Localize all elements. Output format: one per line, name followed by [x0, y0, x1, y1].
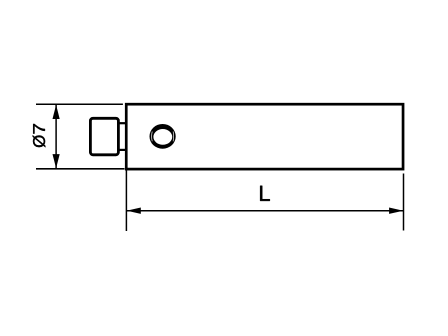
label D7 digit 7	[33, 124, 45, 134]
neck between stud and body	[118, 123, 126, 150]
hole ring	[150, 124, 176, 149]
arrowhead left	[127, 208, 141, 214]
extension line right	[403, 174, 405, 231]
arrowhead right	[389, 208, 403, 214]
label D7 diameter symbol	[33, 135, 46, 147]
arrowhead up	[53, 105, 60, 119]
threaded stud	[90, 118, 118, 155]
arrowhead down	[53, 154, 60, 168]
extension line top	[36, 103, 123, 105]
extension line bottom	[36, 168, 125, 170]
extension line left	[125, 170, 127, 231]
label L	[260, 186, 270, 201]
dimension line L	[126, 210, 403, 212]
hole ring right seam	[172, 132, 175, 142]
main body outline	[126, 104, 403, 169]
dimension line D7	[55, 105, 57, 168]
hole ring left seam	[151, 132, 154, 142]
